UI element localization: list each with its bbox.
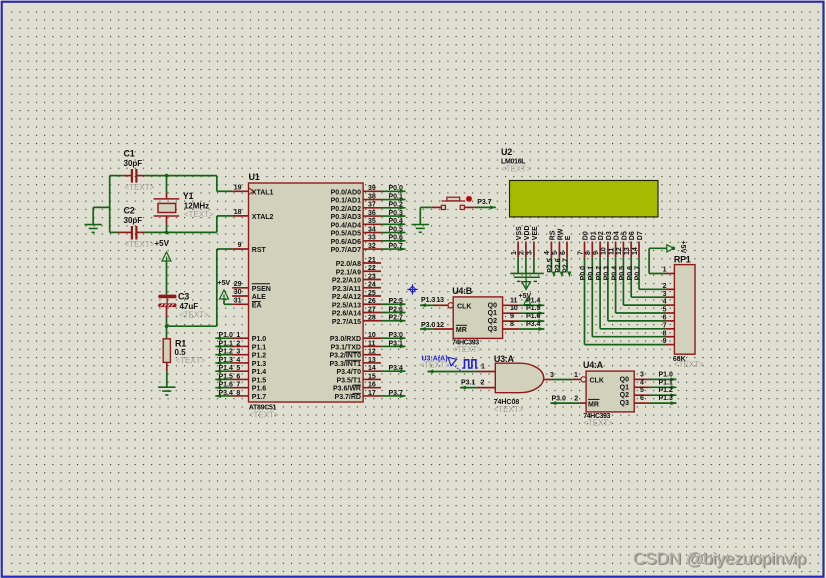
svg-text:P3.7: P3.7 — [477, 199, 492, 206]
wire lcd P2.5 control net — [550, 258, 552, 271]
svg-text:2: 2 — [236, 340, 240, 347]
svg-text:P2.5/A13: P2.5/A13 — [332, 302, 361, 309]
svg-text:31: 31 — [234, 297, 242, 304]
svg-text:P1.2: P1.2 — [252, 353, 267, 360]
svg-text:P1.5: P1.5 — [526, 305, 541, 312]
lcd U2 pin 6 E — [566, 242, 568, 258]
counter U4:B pin 12 MR — [434, 328, 454, 330]
svg-text:P0.6/AD6: P0.6/AD6 — [331, 239, 361, 246]
wire C3 to R1 — [166, 307, 168, 317]
svg-text:7: 7 — [236, 382, 240, 389]
mcu U1 AT89C51 body — [249, 183, 364, 402]
wire lcd D4 net P0.4 to RP1 — [615, 258, 617, 313]
svg-text:P1.2: P1.2 — [218, 349, 233, 356]
svg-text:D4: D4 — [614, 231, 621, 240]
lcd U2 pin 9 D2 — [599, 242, 601, 258]
power +5V terminal (RP1) — [667, 245, 674, 252]
svg-text:3: 3 — [236, 349, 240, 356]
mcu U1 pin 2 P1.1 with net P1.1 — [232, 345, 249, 347]
mcu U1 pin 32 P0.7/AD7 with net P0.7 — [363, 248, 381, 250]
svg-text:P0.0/AD0: P0.0/AD0 — [331, 189, 361, 196]
ground (button) — [419, 207, 421, 224]
svg-text:33: 33 — [368, 235, 376, 242]
svg-text:P1.4: P1.4 — [218, 365, 233, 372]
svg-text:P2.0/A8: P2.0/A8 — [336, 261, 361, 268]
svg-text:<TEXT>: <TEXT> — [583, 418, 613, 427]
svg-text:5: 5 — [552, 251, 559, 255]
svg-text:3: 3 — [550, 372, 554, 379]
svg-text:Q0: Q0 — [620, 376, 629, 383]
svg-text:Q2: Q2 — [620, 392, 629, 399]
svg-text:P3.6/WR: P3.6/WR — [333, 386, 361, 393]
respack RP1 pin 6 — [666, 320, 674, 322]
svg-text:24: 24 — [368, 282, 376, 289]
svg-text:P0.3: P0.3 — [389, 210, 404, 217]
svg-text:3: 3 — [663, 291, 667, 298]
mcu U1 pin 1 P1.0 with net P1.0 — [232, 337, 249, 339]
svg-text:P0.7: P0.7 — [389, 243, 404, 250]
svg-text:VDD: VDD — [524, 225, 531, 240]
mcu U1 pin 29 PSEN — [232, 287, 248, 289]
svg-text:28: 28 — [368, 315, 376, 322]
svg-text:2: 2 — [574, 396, 578, 403]
svg-text:EA: EA — [252, 302, 262, 309]
junction node RST — [165, 324, 169, 328]
lcd U2 pin 2 VDD — [525, 242, 527, 258]
svg-text:6: 6 — [640, 395, 644, 402]
svg-text:P0.2: P0.2 — [596, 266, 603, 281]
svg-text:MR: MR — [456, 327, 467, 334]
svg-text:12: 12 — [616, 247, 623, 255]
svg-text:12: 12 — [436, 322, 444, 329]
svg-text:<TEXT>: <TEXT> — [125, 240, 155, 249]
svg-text:P3.1: P3.1 — [389, 340, 404, 347]
lcd U2 display body — [510, 181, 659, 217]
svg-text:P0.7: P0.7 — [635, 266, 642, 281]
wire button to P3.7 terminal — [464, 206, 474, 208]
svg-text:1: 1 — [511, 251, 518, 255]
svg-text:P0.1: P0.1 — [389, 193, 404, 200]
and-gate U3:A pin 2 input net P3.1 — [478, 387, 496, 389]
crystal Y1 — [166, 176, 168, 193]
mcu U1 pin 17 P3.7/RD — [363, 395, 381, 397]
lcd U2 pin 13 D6 — [630, 242, 632, 258]
svg-text:11: 11 — [368, 340, 376, 347]
respack RP1 pin 9 — [666, 344, 674, 346]
wire lcd D1 net P0.1 to RP1 — [591, 258, 593, 337]
svg-text:Q1: Q1 — [620, 384, 629, 391]
svg-text:VSS: VSS — [516, 226, 523, 240]
svg-text:R1: R1 — [175, 338, 186, 348]
svg-text:P2.4/A12: P2.4/A12 — [332, 294, 361, 301]
mcu U1 pin 28 P2.7/A15 — [363, 320, 381, 322]
mcu U1 pin 31 EA — [232, 303, 248, 305]
button actuator marker — [466, 196, 472, 202]
svg-text:36: 36 — [368, 210, 376, 217]
svg-text:<TEXT>: <TEXT> — [179, 310, 209, 319]
svg-text:5: 5 — [236, 365, 240, 372]
svg-text:P1.6: P1.6 — [218, 382, 233, 389]
svg-text:7: 7 — [577, 251, 584, 255]
svg-text:P3.4/T0: P3.4/T0 — [336, 369, 361, 376]
respack RP1 pin 5 — [666, 312, 674, 314]
respack RP1 body — [674, 265, 695, 355]
svg-text:3: 3 — [640, 371, 644, 378]
svg-text:PSEN: PSEN — [252, 286, 271, 293]
svg-text:D5: D5 — [621, 231, 628, 240]
counter U4:B body — [453, 297, 502, 339]
counter U4:B pin 10 Q1 net P1.5 — [503, 312, 520, 314]
wire lcd D0 net P0.0 to RP1 — [584, 258, 586, 345]
mcu U1 pin 7 P1.6 with net P1.6 — [232, 387, 249, 389]
svg-text:D3: D3 — [606, 231, 613, 240]
mcu U1 pin 37 P0.2/AD2 with net P0.2 — [363, 207, 381, 209]
lcd U2 pin 4 RS — [550, 242, 552, 258]
wire lcd D3 net P0.3 to RP1 — [607, 258, 609, 321]
svg-text:1: 1 — [574, 372, 578, 379]
svg-text:RP1: RP1 — [674, 255, 691, 265]
svg-text:Q2: Q2 — [488, 318, 497, 325]
svg-text:5: 5 — [640, 387, 644, 394]
svg-text:32: 32 — [368, 243, 376, 250]
svg-text:P1.0: P1.0 — [218, 332, 233, 339]
svg-text:<TEXT>: <TEXT> — [420, 361, 450, 370]
respack RP1 pin 7 — [666, 328, 674, 330]
svg-text:P3.3/INT1: P3.3/INT1 — [329, 361, 361, 368]
capacitor C3 47uF — [159, 295, 176, 298]
svg-text:RST: RST — [252, 247, 267, 254]
mcu U1 pin 26 P2.5/A13 — [363, 303, 381, 305]
svg-text:U2: U2 — [501, 147, 512, 157]
respack RP1 pin 8 — [666, 336, 674, 338]
wire RST net — [167, 325, 217, 327]
respack RP1 pin 3 — [666, 296, 674, 298]
ground (R1) — [158, 386, 175, 388]
lcd U2 pin 10 D3 — [607, 242, 609, 258]
wire lcd D7 net P0.7 to RP1 — [638, 258, 640, 290]
svg-text:P0.7/AD7: P0.7/AD7 — [331, 247, 361, 254]
svg-text:P0.0: P0.0 — [389, 185, 404, 192]
svg-text:30pF: 30pF — [124, 159, 143, 168]
svg-text:22: 22 — [368, 265, 376, 272]
svg-text:C3: C3 — [178, 292, 189, 302]
svg-text:+5V: +5V — [519, 293, 532, 300]
mcu U1 pin 19 XTAL1 — [232, 190, 248, 192]
junction node crystal-bottom — [165, 231, 169, 235]
svg-text:P0.3/AD3: P0.3/AD3 — [331, 214, 361, 221]
mcu U1 pin 27 P2.6/A14 — [363, 312, 381, 314]
svg-text:11: 11 — [510, 297, 518, 304]
svg-text:10: 10 — [368, 332, 376, 339]
mcu U1 pin 39 P0.0/AD0 with net P0.0 — [363, 190, 381, 192]
svg-text:E: E — [565, 235, 572, 240]
svg-text:23: 23 — [368, 273, 376, 280]
svg-text:P1.3: P1.3 — [659, 395, 674, 402]
wire XTAL bottom net — [110, 231, 118, 233]
mcu U1 pin 24 P2.3/A11 — [363, 287, 381, 289]
svg-text:<TEXT>: <TEXT> — [452, 345, 482, 354]
svg-text:1: 1 — [236, 332, 240, 339]
wire lcd D2 net P0.2 to RP1 — [599, 258, 601, 329]
mcu U1 pin 33 P0.6/AD6 with net P0.6 — [363, 240, 381, 242]
svg-text:<TEXT>: <TEXT> — [494, 405, 524, 414]
mcu U1 pin 18 XTAL2 — [232, 215, 248, 217]
svg-text:P3.0: P3.0 — [421, 322, 436, 329]
svg-text:U4:A: U4:A — [583, 360, 604, 370]
svg-text:P1.5: P1.5 — [252, 377, 267, 384]
svg-text:P1.1: P1.1 — [659, 379, 674, 386]
svg-text:14: 14 — [632, 247, 639, 255]
svg-text:16: 16 — [368, 382, 376, 389]
svg-text:P0.6: P0.6 — [389, 235, 404, 242]
mcu U1 pin 23 P2.2/A10 — [363, 279, 381, 281]
svg-text:27: 27 — [368, 306, 376, 313]
svg-text:P3.4: P3.4 — [218, 390, 233, 397]
svg-text:8: 8 — [663, 330, 667, 337]
lcd U2 pin 3 VEE — [533, 242, 535, 258]
svg-text:C2: C2 — [124, 206, 135, 216]
svg-text:30: 30 — [234, 289, 242, 296]
svg-text:D0: D0 — [583, 231, 590, 240]
svg-text:D6: D6 — [629, 231, 636, 240]
mcu U1 pin 30 ALE — [232, 295, 248, 297]
ground (lcd VSS VDD VEE) — [517, 258, 519, 274]
svg-text:CLK: CLK — [590, 378, 604, 385]
svg-text:P2.6: P2.6 — [555, 258, 562, 273]
counter U4:B pin 9 Q2 net P1.6 — [503, 320, 520, 322]
mcu U1 pin 4 P1.3 with net P1.3 — [232, 362, 249, 364]
svg-text:13: 13 — [624, 247, 631, 255]
svg-text:<TEXT>: <TEXT> — [249, 411, 279, 420]
svg-text:P2.2/A10: P2.2/A10 — [332, 278, 361, 285]
svg-text:D7: D7 — [637, 231, 644, 240]
svg-text:P2.7: P2.7 — [563, 258, 570, 273]
svg-text:P1.0: P1.0 — [659, 371, 674, 378]
svg-text:P0.5: P0.5 — [389, 226, 404, 233]
svg-text:P2.7/A15: P2.7/A15 — [332, 319, 361, 326]
svg-text:+5V: +5V — [218, 280, 231, 287]
svg-text:CSDN @biyezuopinvip: CSDN @biyezuopinvip — [633, 549, 806, 568]
svg-text:P3.1/TXD: P3.1/TXD — [331, 344, 361, 351]
svg-text:P1.7: P1.7 — [252, 394, 267, 401]
svg-text:P2.5: P2.5 — [389, 298, 404, 305]
svg-text:2: 2 — [663, 283, 667, 290]
lcd U2 pin 12 D5 — [622, 242, 624, 258]
counter U4:A pin 2 MR net P3.0 — [579, 402, 586, 404]
svg-text:Q3: Q3 — [620, 400, 629, 407]
mcu U1 pin 36 P0.3/AD3 with net P0.3 — [363, 215, 381, 217]
and-gate U3:A pin 3 output — [544, 379, 552, 381]
svg-text:P0.4/AD4: P0.4/AD4 — [331, 222, 361, 229]
svg-text:P0.5: P0.5 — [619, 266, 626, 281]
svg-text:U1: U1 — [249, 172, 260, 182]
svg-text:P0.5/AD5: P0.5/AD5 — [331, 231, 361, 238]
svg-text:4: 4 — [640, 379, 644, 386]
svg-text:P2.5: P2.5 — [547, 258, 554, 273]
svg-text:10: 10 — [510, 305, 518, 312]
svg-text:11: 11 — [608, 247, 615, 255]
svg-text:P0.0: P0.0 — [580, 266, 587, 281]
svg-text:VEE: VEE — [532, 226, 539, 240]
lcd U2 pin 1 VSS — [517, 242, 519, 258]
svg-text:9: 9 — [663, 338, 667, 345]
respack RP1 pin 2 — [666, 288, 674, 290]
svg-text:14: 14 — [368, 365, 376, 372]
svg-text:9: 9 — [238, 242, 242, 249]
mcu U1 pin 38 P0.1/AD1 with net P0.1 — [363, 199, 381, 201]
mcu U1 pin 6 P1.5 with net P1.5 — [232, 378, 249, 380]
counter U4:B pin 8 Q3 net P3.4 — [503, 328, 520, 330]
svg-text:P1.5: P1.5 — [218, 373, 233, 380]
svg-text:C1: C1 — [124, 149, 135, 159]
svg-text:+5V: +5V — [155, 239, 170, 248]
svg-text:P1.4: P1.4 — [252, 369, 267, 376]
svg-text:P1.3: P1.3 — [252, 361, 267, 368]
junction node RP1 +5V — [672, 247, 676, 251]
lcd U2 pin 5 RW — [558, 242, 560, 258]
svg-text:ALE: ALE — [252, 294, 266, 301]
svg-text:4: 4 — [236, 357, 240, 364]
svg-text:18: 18 — [234, 209, 242, 216]
counter U4:B pin 13 CLK — [448, 303, 453, 308]
svg-text:CLK: CLK — [457, 303, 471, 310]
counter U4:A pin 6 Q3 net P1.3 — [634, 402, 649, 404]
clock waveform glyph — [462, 360, 477, 368]
mcu U1 pin 5 P1.4 with net P1.4 — [232, 370, 249, 372]
svg-text:U4:B: U4:B — [452, 286, 473, 296]
svg-text:+5V: +5V — [679, 241, 686, 254]
origin marker — [407, 284, 417, 294]
svg-text:6: 6 — [236, 373, 240, 380]
mcu U1 pin 22 P2.1/A9 — [363, 270, 381, 272]
counter U4:A pin 5 Q2 net P1.2 — [634, 394, 649, 396]
svg-text:XTAL2: XTAL2 — [252, 214, 274, 221]
svg-text:4: 4 — [663, 299, 667, 306]
svg-text:5: 5 — [663, 307, 667, 314]
mcu U1 pin 10 P3.0/RXD — [363, 337, 381, 339]
svg-text:MR: MR — [588, 401, 599, 408]
svg-text:P3.7: P3.7 — [389, 390, 404, 397]
svg-text:21: 21 — [368, 257, 376, 264]
svg-text:P1.1: P1.1 — [218, 340, 233, 347]
mcu U1 pin 15 P3.5/T1 — [363, 378, 381, 380]
svg-text:U3:A: U3:A — [494, 354, 515, 364]
svg-text:P2.3/A11: P2.3/A11 — [332, 286, 361, 293]
mcu U1 pin 8 P1.7 with net P3.4 — [232, 395, 249, 397]
svg-text:P0.2: P0.2 — [389, 202, 404, 209]
svg-text:P0.4: P0.4 — [389, 218, 404, 225]
svg-text:P3.0: P3.0 — [389, 332, 404, 339]
svg-text:P2.1/A9: P2.1/A9 — [336, 269, 361, 276]
lcd U2 pin 7 D0 — [584, 242, 586, 258]
svg-text:38: 38 — [368, 193, 376, 200]
svg-text:10: 10 — [601, 247, 608, 255]
svg-text:Y1: Y1 — [183, 191, 194, 201]
svg-text:P3.7/RD: P3.7/RD — [335, 394, 361, 401]
mcu U1 pin 3 P1.2 with net P1.2 — [232, 354, 249, 356]
mcu U1 pin 21 P2.0/A8 — [363, 262, 381, 264]
svg-text:P0.1/AD1: P0.1/AD1 — [331, 198, 361, 205]
wire lcd D6 net P0.6 to RP1 — [630, 258, 632, 297]
wire +5V to RP1 pin 1 — [649, 247, 667, 249]
svg-text:P2.6/A14: P2.6/A14 — [332, 311, 361, 318]
resistor R1 — [163, 339, 170, 363]
wire lcd D5 net P0.5 to RP1 — [622, 258, 624, 305]
mcu U1 pin 13 P3.3/INT1 — [363, 362, 381, 364]
mcu U1 pin 9 RST — [232, 248, 248, 250]
svg-text:RS: RS — [549, 230, 556, 240]
svg-text:P1.3: P1.3 — [421, 297, 436, 304]
svg-text:3: 3 — [527, 251, 534, 255]
svg-text:6: 6 — [663, 315, 667, 322]
svg-text:P1.2: P1.2 — [659, 387, 674, 394]
svg-text:<TEXT>: <TEXT> — [674, 360, 704, 369]
mcu U1 pin 16 P3.6/WR — [363, 387, 381, 389]
lcd U2 pin 8 D1 — [591, 242, 593, 258]
and-gate U3:A pin 1 input — [478, 371, 496, 373]
svg-text:Q1: Q1 — [488, 310, 497, 317]
svg-text:P3.1: P3.1 — [461, 379, 476, 386]
mcu U1 pin 34 P0.5/AD5 with net P0.5 — [363, 232, 381, 234]
counter U4:A pin 3 Q0 net P1.0 — [634, 378, 649, 380]
and-gate U3:A body — [495, 363, 543, 393]
svg-text:2: 2 — [519, 251, 526, 255]
svg-text:P3.0: P3.0 — [552, 396, 567, 403]
svg-text:9: 9 — [510, 313, 514, 320]
svg-text:P3.5/T1: P3.5/T1 — [336, 377, 361, 384]
lcd U2 pin 14 D7 — [638, 242, 640, 258]
wire left vertical C1-C2 — [109, 176, 111, 233]
svg-text:35: 35 — [368, 218, 376, 225]
svg-text:12: 12 — [368, 349, 376, 356]
svg-text:<TEXT>: <TEXT> — [176, 356, 206, 365]
svg-text:Q3: Q3 — [488, 326, 497, 333]
svg-text:9: 9 — [593, 251, 600, 255]
capacitor C2 — [118, 231, 131, 233]
svg-text:D1: D1 — [590, 231, 597, 240]
svg-text:1: 1 — [663, 267, 667, 274]
svg-text:19: 19 — [234, 184, 242, 191]
svg-text:P1.0: P1.0 — [252, 336, 267, 343]
svg-text:P1.1: P1.1 — [252, 344, 267, 351]
svg-text:P1.6: P1.6 — [252, 386, 267, 393]
svg-text:P2.7: P2.7 — [389, 315, 404, 322]
respack RP1 pin 1 — [666, 273, 674, 275]
svg-text:17: 17 — [368, 390, 376, 397]
svg-text:13: 13 — [436, 297, 444, 304]
mcu U1 pin 11 P3.1/TXD — [363, 345, 381, 347]
svg-text:P0.4: P0.4 — [611, 266, 618, 281]
svg-text:26: 26 — [368, 298, 376, 305]
svg-text:P0.2/AD2: P0.2/AD2 — [331, 206, 361, 213]
svg-text:P1.3: P1.3 — [218, 357, 233, 364]
wire lcd P2.6 control net — [558, 258, 560, 271]
svg-text:15: 15 — [368, 373, 376, 380]
svg-text:RW: RW — [557, 228, 564, 240]
mcu U1 pin 25 P2.4/A12 — [363, 295, 381, 297]
respack RP1 pin 4 — [666, 304, 674, 306]
svg-text:7: 7 — [663, 322, 667, 329]
counter U4:A body — [586, 371, 634, 412]
wire XTAL top net — [110, 175, 124, 177]
svg-text:6: 6 — [560, 251, 567, 255]
svg-text:25: 25 — [368, 290, 376, 297]
svg-text:4: 4 — [544, 251, 551, 255]
mcu U1 pin 35 P0.4/AD4 with net P0.4 — [363, 223, 381, 225]
svg-text:P0.6: P0.6 — [627, 266, 634, 281]
svg-text:37: 37 — [368, 202, 376, 209]
svg-text:P0.1: P0.1 — [588, 266, 595, 281]
